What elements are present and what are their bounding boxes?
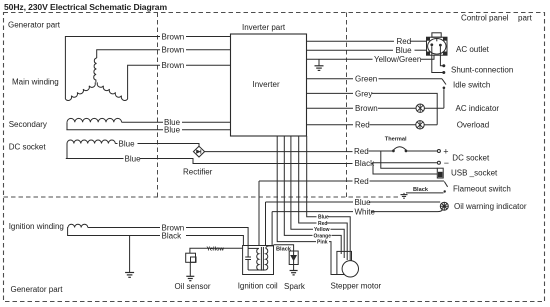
dc socket winding coil — [67, 140, 115, 143]
ignition winding left lead — [68, 228, 160, 236]
dashed divider inverter/control panel — [346, 13, 348, 198]
svg-text:Ignition winding: Ignition winding — [9, 222, 64, 231]
main winding coil left diagonal — [65, 82, 95, 100]
wire red flameout row — [259, 180, 444, 182]
wire red to overload — [307, 124, 354, 126]
svg-text:Yellow/Green: Yellow/Green — [374, 55, 421, 64]
white wire from ignition coil — [271, 212, 273, 246]
svg-text:Black: Black — [162, 231, 183, 240]
svg-text:DC socket: DC socket — [9, 143, 47, 152]
ground (ignition) — [125, 273, 134, 278]
svg-text:Thermal: Thermal — [385, 137, 407, 143]
stepper wire 1 from inverter (pink) — [277, 136, 316, 242]
wire brown1 to inverter — [186, 36, 231, 38]
wire red dc+ row — [369, 147, 438, 151]
svg-text:Black: Black — [355, 159, 376, 168]
inverter box U1 — [231, 34, 307, 136]
USB socket symbol — [437, 168, 443, 178]
oil sensor symbol — [186, 248, 243, 276]
svg-text:Idle switch: Idle switch — [453, 81, 490, 90]
svg-text:Blue: Blue — [119, 139, 136, 148]
capacitor C1 inside ignition coil — [245, 246, 251, 271]
svg-text:Yellow: Yellow — [207, 246, 225, 252]
stepper motor body — [337, 251, 352, 274]
wire red rectifier output — [205, 151, 353, 153]
main winding phase 3 lead wire — [128, 65, 160, 99]
svg-text:Blue: Blue — [355, 198, 372, 207]
main winding coil vertical — [94, 58, 97, 83]
stepper lead red — [327, 223, 347, 260]
dashed divider generator/inverter — [157, 13, 159, 198]
svg-text:Generator part: Generator part — [11, 285, 64, 294]
svg-text:Blue: Blue — [396, 46, 413, 55]
ground (inverter area) — [315, 66, 324, 71]
stepper lead pink — [329, 242, 342, 275]
wire grey — [307, 92, 354, 94]
stepper motor circle — [342, 261, 358, 277]
secondary bottom lead — [66, 122, 163, 130]
stepper wire 2 from inverter (orange) — [284, 136, 312, 235]
wire blue oil warning row — [266, 202, 443, 212]
ignition coil core — [261, 247, 263, 271]
usb drop wires — [373, 151, 437, 174]
wire green — [307, 78, 354, 80]
thermal switch arc — [393, 147, 406, 150]
oil warning indicator lamp — [440, 202, 448, 210]
svg-text:Stepper motor: Stepper motor — [331, 281, 382, 290]
stepper lead blue — [329, 217, 351, 262]
svg-text:Yellow: Yellow — [314, 227, 330, 233]
ground (spark) — [290, 271, 298, 275]
svg-text:Spark: Spark — [284, 282, 306, 291]
svg-text:Red: Red — [354, 147, 369, 156]
svg-text:Control panel: Control panel — [461, 14, 509, 23]
ignition coil secondary winding — [266, 248, 268, 270]
ground (flameout) — [401, 193, 408, 198]
main winding phase 2 lead wire — [97, 50, 160, 58]
black wire coil to spark — [274, 245, 294, 251]
wire blue to rectifier — [138, 144, 200, 148]
ignition coil inner bottom rail — [248, 269, 266, 271]
wire white oil warning row — [272, 211, 353, 213]
ignition winding coil — [68, 224, 88, 227]
svg-text:Blue: Blue — [318, 215, 329, 221]
stepper lead orange — [332, 235, 342, 254]
ignition brown wire — [88, 227, 160, 229]
svg-text:Rectifier: Rectifier — [183, 168, 213, 177]
yellow wire from oil sensor — [190, 248, 243, 253]
svg-text:Brown: Brown — [162, 32, 185, 41]
svg-text:USB _socket: USB _socket — [451, 169, 498, 178]
svg-text:Main winding: Main winding — [12, 78, 59, 87]
spark ground stem — [293, 265, 295, 271]
svg-text:Shunt-connection: Shunt-connection — [451, 65, 513, 74]
AC indicator lamp — [416, 104, 424, 112]
stepper wire 4 from inverter (red) — [299, 136, 317, 223]
wire brown2 to inverter — [186, 49, 231, 51]
svg-text:Brown: Brown — [162, 46, 185, 55]
dc winding top wire blue — [115, 143, 117, 145]
wire blue to rectifier bottom — [140, 159, 353, 164]
AC outlet symbol — [427, 33, 448, 55]
dc+ terminal — [437, 150, 440, 153]
dc- terminal — [437, 161, 440, 164]
shunt connection wires — [432, 46, 443, 72]
rectifier — [193, 146, 204, 157]
main winding coil right diagonal — [97, 82, 127, 100]
stepper wire 3 from inverter (yellow) — [291, 136, 313, 229]
svg-text:Red: Red — [354, 177, 369, 186]
svg-text:part: part — [518, 14, 533, 23]
svg-text:Brown: Brown — [355, 104, 378, 113]
svg-text:Blue: Blue — [164, 126, 181, 135]
svg-text:Black: Black — [413, 187, 429, 193]
wire blue inverter to outlet — [307, 49, 394, 51]
svg-text:Brown: Brown — [162, 61, 185, 70]
svg-text:+: + — [443, 146, 448, 156]
svg-text:Generator part: Generator part — [8, 21, 61, 30]
svg-text:Oil sensor: Oil sensor — [175, 282, 211, 291]
stepper wire 5 from inverter (blue) — [307, 136, 317, 217]
stepper lead yellow — [331, 229, 345, 258]
svg-text:White: White — [355, 208, 376, 217]
wire red inverter to outlet — [307, 40, 395, 42]
secondary bottom wire blue (right) — [182, 129, 231, 131]
svg-text:Inverter part: Inverter part — [242, 23, 286, 32]
ignition ground drop — [129, 236, 131, 273]
ignition coil box — [243, 246, 274, 275]
wire brown3 to inverter — [186, 64, 231, 66]
svg-text:Grey: Grey — [355, 89, 372, 98]
svg-text:Flameout switch: Flameout switch — [453, 184, 511, 193]
ignition coil inner top rail — [248, 247, 259, 249]
svg-text:Red: Red — [318, 221, 327, 227]
spark plug symbol — [289, 251, 298, 271]
shunt connection node dots — [442, 64, 445, 67]
svg-text:Green: Green — [355, 75, 377, 84]
dc winding bottom lead — [66, 144, 124, 159]
svg-text:Inverter: Inverter — [253, 80, 280, 89]
oil sensor ground stem — [189, 262, 191, 276]
svg-text:Oil warning indicator: Oil warning indicator — [454, 202, 527, 211]
ignition coil primary winding — [257, 248, 259, 270]
secondary top wire blue (right) — [182, 121, 231, 123]
thermal switch contact dots — [392, 150, 395, 153]
wire black dc- row — [373, 162, 437, 164]
svg-text:Red: Red — [397, 37, 412, 46]
svg-text:−: − — [444, 158, 449, 168]
idle switch — [442, 79, 446, 108]
wire brown to AC indicator — [307, 107, 354, 109]
svg-text:AC indicator: AC indicator — [456, 104, 500, 113]
svg-text:Red: Red — [355, 121, 370, 130]
wire yellow/green — [307, 58, 373, 60]
svg-text:Secondary: Secondary — [9, 120, 47, 129]
flameout switch — [406, 182, 448, 193]
ignition coil secondary top lead — [266, 246, 274, 249]
main winding phase 1 lead wire — [65, 37, 160, 100]
ignition brown wire right — [186, 228, 248, 246]
svg-text:Overload: Overload — [457, 121, 489, 130]
blue wire from ignition coil — [265, 202, 267, 246]
ground (oil sensor) — [186, 276, 194, 280]
svg-text:Ignition coil: Ignition coil — [238, 281, 278, 290]
svg-text:Orange: Orange — [314, 233, 332, 239]
overload lamp — [416, 121, 424, 129]
svg-text:Pink: Pink — [317, 239, 328, 245]
kill wire from ignition coil to flameout red — [258, 181, 260, 246]
dashed divider horizontal — [4, 196, 401, 198]
secondary winding coil — [67, 118, 122, 122]
svg-text:AC outlet: AC outlet — [456, 45, 490, 54]
secondary top wire blue — [122, 121, 163, 123]
ignition black wire right — [186, 236, 243, 246]
ground tap wire — [318, 59, 320, 66]
svg-text:50Hz, 230V Electrical Schemati: 50Hz, 230V Electrical Schematic Diagram — [4, 2, 167, 12]
svg-text:Blue: Blue — [125, 154, 142, 163]
svg-text:DC socket: DC socket — [452, 153, 490, 162]
